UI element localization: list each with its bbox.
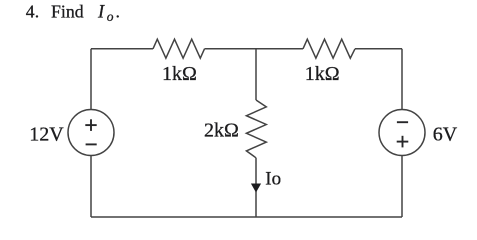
svg-text:1kΩ: 1kΩ: [305, 63, 340, 85]
svg-text:.: .: [116, 2, 120, 22]
title: 4. Find Io.: [26, 2, 120, 24]
wire: right branch lower segment: [401, 156, 403, 218]
svg-text:1kΩ: 1kΩ: [162, 63, 197, 85]
current label Io: [265, 169, 281, 190]
wire: top-right segment from R2 to right corner: [355, 48, 402, 50]
svg-text:Io: Io: [265, 169, 281, 190]
svg-text:6V: 6V: [433, 124, 458, 146]
value label 1kOhm for R1: [162, 63, 197, 85]
wire: middle branch from R3 down to bottom rail: [255, 158, 257, 217]
wire: left branch upper segment: [90, 49, 92, 110]
resistor R1 (top-left 1k ohm zigzag): [153, 39, 205, 58]
current arrow Io (arrowhead on middle branch): [251, 184, 261, 193]
voltage source V1 12V (circle): [68, 110, 114, 156]
wire: left branch lower segment: [90, 156, 92, 218]
wire: bottom rail: [91, 216, 402, 218]
svg-text:o: o: [107, 9, 114, 24]
V2 minus polarity mark: [397, 121, 408, 123]
value label 2kOhm for R3: [204, 119, 239, 141]
wire: top-left segment from node A (left corner) to R1: [91, 48, 153, 50]
svg-text:2kΩ: 2kΩ: [204, 119, 239, 141]
wire: right branch upper segment: [401, 49, 403, 110]
svg-text:Find: Find: [51, 2, 84, 22]
V1 minus polarity mark: [86, 143, 97, 145]
value label 1kOhm for R2: [305, 63, 340, 85]
svg-text:12V: 12V: [29, 124, 64, 146]
value label 12V for V1: [29, 124, 64, 146]
voltage source V2 6V (circle): [379, 110, 425, 156]
resistor R3 (middle 2k ohm vertical zigzag): [246, 100, 266, 158]
wire: top-middle segment from R1 through node B to R2: [205, 48, 304, 50]
V2 plus polarity mark: [397, 136, 409, 148]
resistor R2 (top-right 1k ohm zigzag): [303, 39, 355, 58]
value label 6V for V2: [433, 124, 458, 146]
svg-text:I: I: [97, 3, 105, 23]
svg-text:4.: 4.: [26, 2, 39, 22]
wire: middle branch from node B down to R3: [255, 49, 257, 100]
V1 plus polarity mark: [85, 119, 96, 131]
